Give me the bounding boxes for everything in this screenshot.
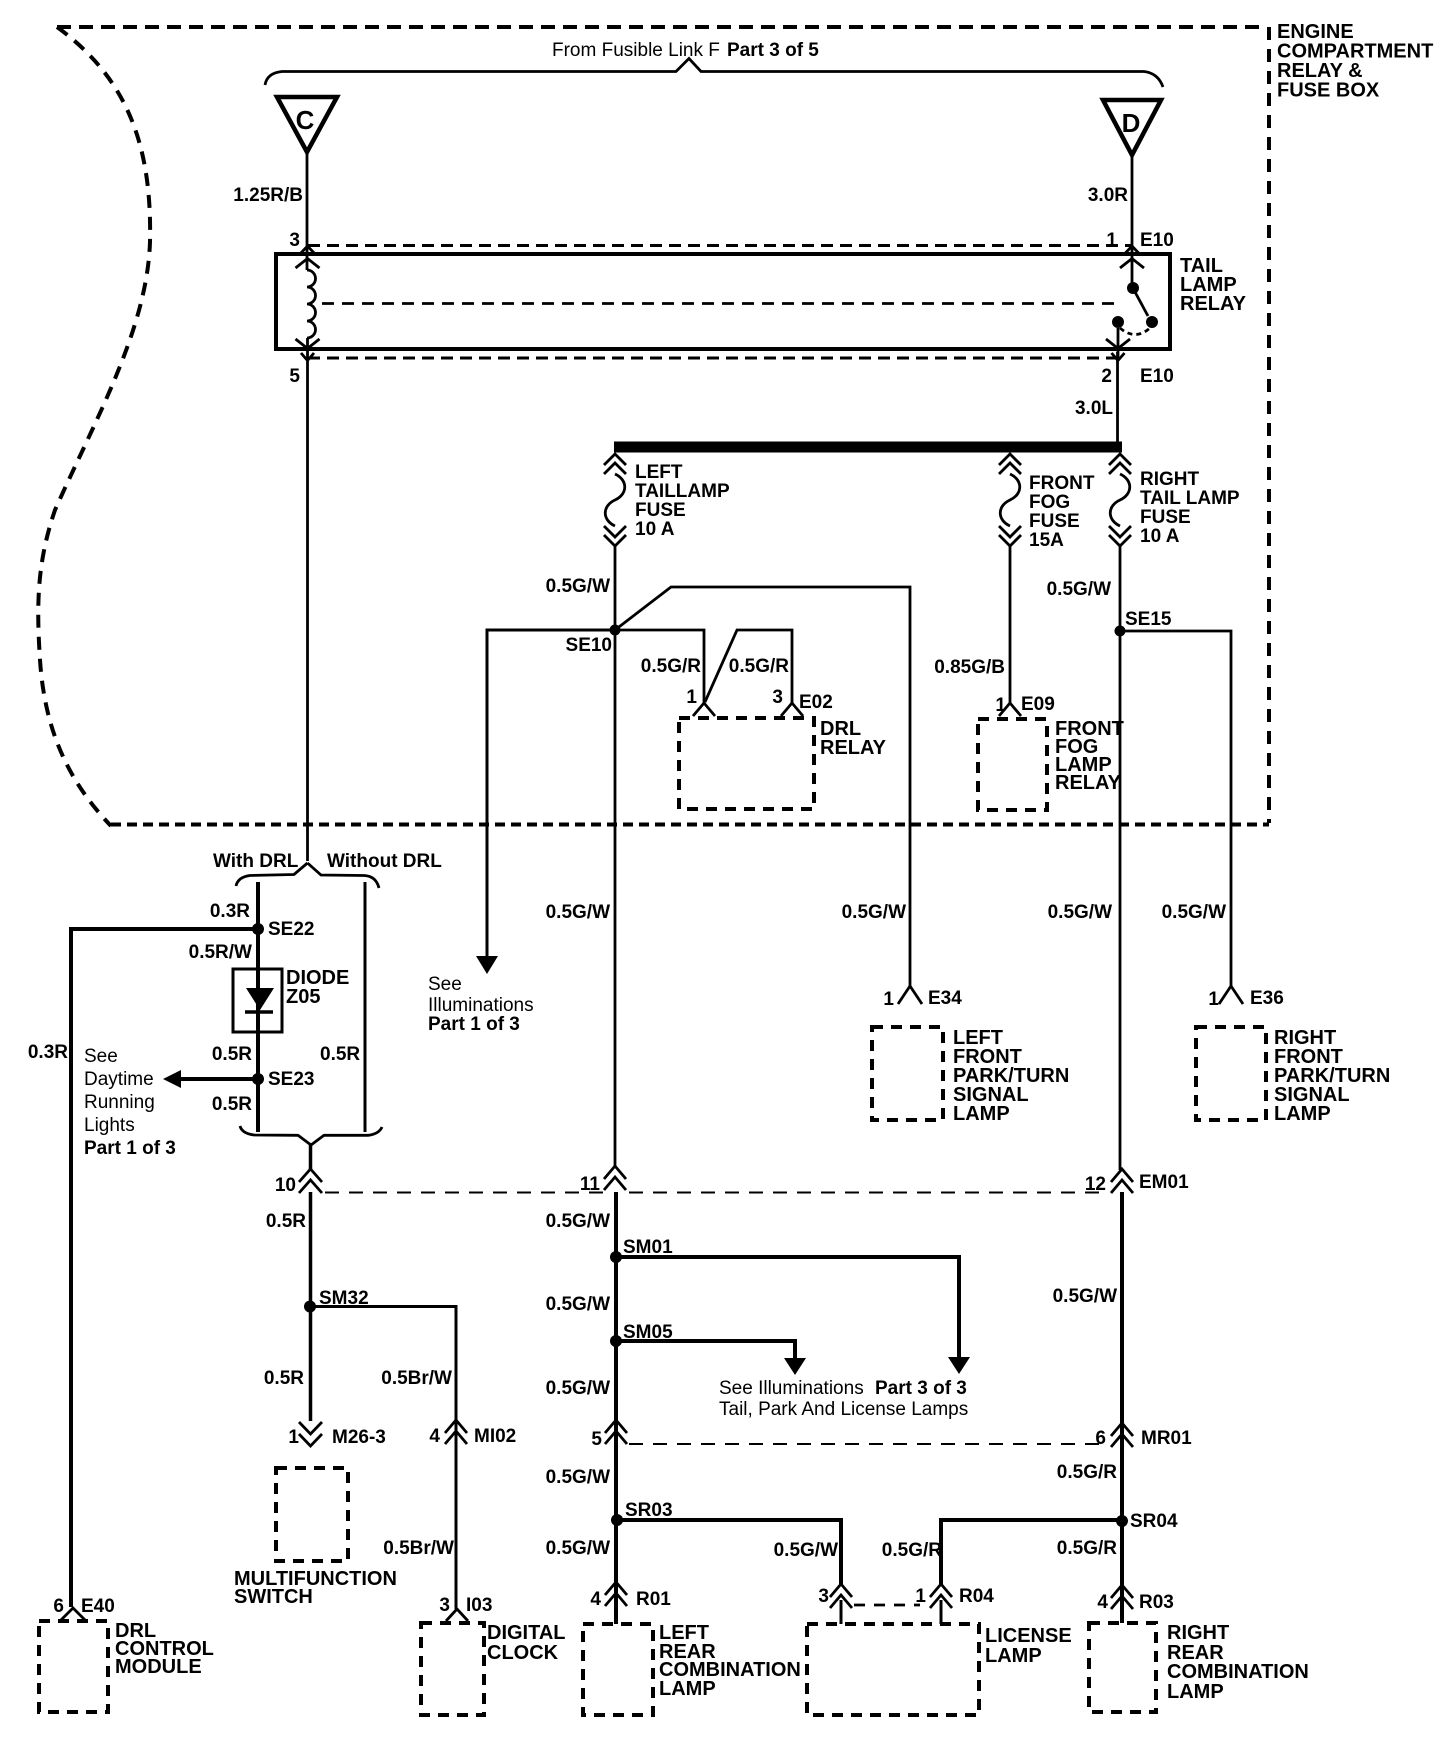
E09 pin chevron bbox=[999, 703, 1021, 716]
node SM01 bbox=[610, 1251, 622, 1263]
svg-text:Part 1 of 3: Part 1 of 3 bbox=[428, 1014, 520, 1035]
svg-text:3: 3 bbox=[439, 1595, 450, 1616]
MI02 pin chevrons bbox=[445, 1420, 467, 1444]
R03 pin chevrons bbox=[1111, 1585, 1133, 1609]
svg-text:0.5G/W: 0.5G/W bbox=[1162, 902, 1226, 923]
svg-text:LAMP: LAMP bbox=[985, 1645, 1042, 1667]
wire pin 10 to SM32 bbox=[309, 1192, 313, 1307]
svg-text:4: 4 bbox=[429, 1426, 440, 1447]
svg-text:RELAY: RELAY bbox=[1055, 772, 1122, 794]
svg-text:LAMP: LAMP bbox=[1274, 1103, 1331, 1125]
wire merge to pin 10 bbox=[309, 1144, 313, 1170]
svg-text:M26-3: M26-3 bbox=[332, 1427, 386, 1448]
svg-text:0.5G/W: 0.5G/W bbox=[546, 1538, 610, 1559]
svg-text:2: 2 bbox=[1101, 366, 1112, 387]
svg-text:3: 3 bbox=[289, 230, 300, 251]
wire crossover to DRL relay pin 3 bbox=[705, 630, 792, 703]
svg-text:TAIL LAMP: TAIL LAMP bbox=[1140, 488, 1240, 509]
svg-text:0.5G/R: 0.5G/R bbox=[882, 1540, 942, 1561]
label FRONT FOG LAMP RELAY bbox=[1055, 718, 1124, 794]
svg-text:0.5G/R: 0.5G/R bbox=[1057, 1462, 1117, 1483]
svg-text:0.5G/W: 0.5G/W bbox=[842, 902, 906, 923]
svg-text:1: 1 bbox=[1106, 230, 1117, 251]
wire R03 stub bbox=[1120, 1601, 1124, 1623]
dashed line below tail lamp relay bbox=[308, 357, 1117, 360]
dashed line between license pins bbox=[854, 1604, 920, 1607]
pin 6 chevrons MR01 bbox=[1111, 1423, 1133, 1447]
svg-text:CLOCK: CLOCK bbox=[487, 1642, 559, 1664]
DRL merge brace left bbox=[240, 1126, 311, 1145]
label FRONT FOG FUSE 15A bbox=[1029, 473, 1095, 551]
with DRL branch wire bbox=[256, 882, 260, 1132]
wire SM32 branch to MI02 bbox=[311, 1307, 457, 1610]
svg-text:3.0R: 3.0R bbox=[1088, 185, 1128, 206]
svg-text:FUSE BOX: FUSE BOX bbox=[1277, 80, 1380, 102]
wire R04 pin 1 to SR04 bbox=[941, 1520, 1122, 1584]
svg-text:0.5R: 0.5R bbox=[320, 1044, 360, 1065]
DRL relay dashed box bbox=[679, 718, 814, 809]
svg-text:FUSE: FUSE bbox=[635, 500, 686, 521]
label LEFT REAR COMBINATION LAMP bbox=[659, 1622, 801, 1700]
R01 pin chevrons bbox=[605, 1582, 627, 1606]
svg-text:SR04: SR04 bbox=[1130, 1511, 1178, 1532]
svg-text:SWITCH: SWITCH bbox=[234, 1586, 313, 1608]
relay pin 3 entry chevrons bbox=[296, 246, 320, 268]
label DRL RELAY bbox=[820, 718, 887, 759]
wire SM05 branch arrow bbox=[616, 1341, 806, 1375]
svg-text:0.5Br/W: 0.5Br/W bbox=[383, 1538, 454, 1559]
svg-text:10 A: 10 A bbox=[1140, 526, 1180, 547]
svg-text:E10: E10 bbox=[1140, 230, 1174, 251]
svg-text:E09: E09 bbox=[1021, 694, 1055, 715]
svg-text:LICENSE: LICENSE bbox=[985, 1625, 1072, 1647]
svg-text:E36: E36 bbox=[1250, 988, 1284, 1009]
front fog lamp relay dashed box bbox=[978, 719, 1047, 810]
svg-text:DIGITAL: DIGITAL bbox=[487, 1622, 566, 1644]
fuse bus bar bbox=[614, 442, 1122, 453]
node SE22 bbox=[252, 923, 264, 935]
pin 12 chevrons bbox=[1111, 1169, 1133, 1193]
svg-text:11: 11 bbox=[580, 1174, 601, 1195]
svg-text:FUSE: FUSE bbox=[1140, 507, 1191, 528]
label RIGHT REAR COMBINATION LAMP bbox=[1167, 1622, 1309, 1703]
svg-text:TAILLAMP: TAILLAMP bbox=[635, 481, 730, 502]
node SM32 bbox=[304, 1301, 316, 1313]
engine compartment relay & fuse box border bottom edge bbox=[111, 823, 1269, 827]
svg-text:0.5G/R: 0.5G/R bbox=[729, 656, 789, 677]
E40 pin chevron bbox=[61, 1608, 85, 1620]
svg-text:0.5G/W: 0.5G/W bbox=[774, 1540, 838, 1561]
label DIODE Z05 bbox=[286, 967, 349, 1008]
svg-text:See: See bbox=[428, 974, 462, 995]
pin 5 chevrons bbox=[605, 1420, 627, 1444]
svg-text:Running: Running bbox=[84, 1092, 155, 1113]
svg-text:1: 1 bbox=[686, 687, 697, 708]
relay switch contact dot 2 bbox=[1112, 316, 1124, 328]
relay switch contact dot 1 bbox=[1127, 282, 1139, 294]
svg-text:0.5G/R: 0.5G/R bbox=[641, 656, 701, 677]
wire SM32 to M26-3 bbox=[309, 1307, 313, 1422]
wire right tail lamp fuse down to pin 12 bbox=[1119, 546, 1122, 1170]
wire from triangle D to relay pin 1 bbox=[1131, 155, 1134, 262]
svg-text:SE22: SE22 bbox=[268, 919, 314, 940]
label DIGITAL CLOCK bbox=[487, 1622, 566, 1664]
diode Z05 symbol bbox=[245, 988, 274, 1012]
wire R01 stub bbox=[614, 1598, 618, 1624]
relay coil bbox=[307, 270, 316, 338]
relay pin 1 entry chevrons bbox=[1120, 246, 1144, 268]
svg-text:LAMP: LAMP bbox=[659, 1678, 716, 1700]
DRL control module dashed box bbox=[39, 1621, 108, 1712]
wire from triangle C to relay pin 3 bbox=[306, 152, 309, 270]
svg-text:0.5G/W: 0.5G/W bbox=[1048, 902, 1112, 923]
right tail lamp fuse symbol bbox=[1109, 454, 1131, 546]
svg-text:1: 1 bbox=[883, 989, 894, 1010]
right trunk wire pin 12 to R03 bbox=[1120, 1192, 1124, 1609]
wire front fog fuse to E09 pin 1 bbox=[1009, 546, 1012, 703]
svg-text:4: 4 bbox=[590, 1589, 601, 1610]
svg-text:0.85G/B: 0.85G/B bbox=[934, 657, 1005, 678]
svg-text:SR03: SR03 bbox=[625, 1500, 673, 1521]
svg-text:From Fusible Link F: From Fusible Link F bbox=[552, 40, 720, 61]
svg-text:12: 12 bbox=[1085, 1174, 1106, 1195]
I03 pin chevron bbox=[446, 1609, 468, 1621]
wire SE10 diagonal to E34 branch bbox=[615, 587, 910, 987]
svg-text:FRONT: FRONT bbox=[1029, 473, 1095, 494]
node SE23 bbox=[252, 1073, 264, 1085]
svg-text:0.5R: 0.5R bbox=[264, 1368, 304, 1389]
svg-text:Part 3 of 5: Part 3 of 5 bbox=[727, 40, 819, 61]
label ENGINE COMPARTMENT RELAY & FUSE BOX bbox=[1277, 21, 1433, 102]
svg-text:6: 6 bbox=[53, 1596, 64, 1617]
svg-text:SE15: SE15 bbox=[1125, 609, 1172, 630]
svg-text:SM01: SM01 bbox=[623, 1237, 673, 1258]
label LICENSE LAMP bbox=[985, 1625, 1072, 1667]
svg-text:Z05: Z05 bbox=[286, 986, 320, 1008]
wire R04 stub bbox=[940, 1600, 943, 1624]
wire SE22 to DRL control module bbox=[71, 929, 258, 1607]
svg-text:0.5G/W: 0.5G/W bbox=[546, 1467, 610, 1488]
label LEFT FRONT PARK/TURN SIGNAL LAMP bbox=[953, 1027, 1069, 1125]
relay switch contact dot 3 bbox=[1146, 316, 1158, 328]
svg-text:0.5G/W: 0.5G/W bbox=[1047, 579, 1111, 600]
dashed line above tail lamp relay bbox=[308, 244, 1131, 247]
svg-text:10: 10 bbox=[275, 1175, 296, 1196]
svg-text:SE10: SE10 bbox=[566, 635, 612, 656]
left front park/turn signal lamp dashed box bbox=[872, 1027, 943, 1120]
license lamp pin 1 chevrons bbox=[930, 1584, 952, 1608]
node SM05 bbox=[610, 1335, 622, 1347]
svg-text:RELAY: RELAY bbox=[820, 737, 887, 759]
svg-text:With DRL: With DRL bbox=[213, 851, 299, 872]
node SE15 bbox=[1115, 626, 1126, 637]
front fog fuse symbol bbox=[999, 454, 1021, 546]
right rear combination lamp dashed box bbox=[1089, 1623, 1156, 1712]
svg-text:FOG: FOG bbox=[1029, 492, 1070, 513]
svg-text:0.3R: 0.3R bbox=[28, 1042, 68, 1063]
wire from relay pin 5 down to DRL split bbox=[306, 338, 309, 861]
label LEFT TAILLAMP FUSE 10 A bbox=[635, 462, 730, 540]
left rear combination lamp dashed box bbox=[583, 1624, 653, 1715]
svg-text:RIGHT: RIGHT bbox=[1140, 469, 1200, 490]
engine compartment relay & fuse box border top edge bbox=[57, 25, 1264, 29]
svg-text:LEFT: LEFT bbox=[635, 462, 683, 483]
svg-text:0.3R: 0.3R bbox=[210, 901, 250, 922]
svg-text:COMBINATION: COMBINATION bbox=[1167, 1661, 1309, 1683]
relay switch fixed contact wire bbox=[1131, 258, 1134, 284]
wire from left fuse down to pin 11 bbox=[614, 546, 617, 1167]
engine compartment relay & fuse box border right edge bbox=[1267, 27, 1271, 823]
svg-text:0.5G/W: 0.5G/W bbox=[1053, 1286, 1117, 1307]
svg-text:4: 4 bbox=[1097, 1592, 1108, 1613]
license lamp dashed box bbox=[807, 1624, 979, 1715]
right front park/turn signal lamp dashed box bbox=[1196, 1027, 1266, 1120]
svg-text:5: 5 bbox=[591, 1429, 602, 1450]
svg-text:0.5R: 0.5R bbox=[212, 1094, 252, 1115]
svg-text:0.5R: 0.5R bbox=[266, 1211, 306, 1232]
DRL relay pin 1 chevron bbox=[693, 703, 715, 716]
svg-text:See Illuminations: See Illuminations bbox=[719, 1378, 864, 1399]
svg-text:E02: E02 bbox=[799, 692, 833, 713]
label RIGHT FRONT PARK/TURN SIGNAL LAMP bbox=[1274, 1027, 1390, 1125]
left taillamp fuse symbol bbox=[604, 454, 626, 546]
wire license pin 3 stub bbox=[840, 1600, 843, 1624]
svg-text:I03: I03 bbox=[466, 1595, 492, 1616]
wire SR03 branch to license lamp pin 3 bbox=[617, 1520, 841, 1585]
svg-text:R04: R04 bbox=[959, 1586, 994, 1607]
relay switch dashed arc bbox=[1120, 328, 1150, 335]
wire SM01 branch arrow bbox=[616, 1257, 970, 1374]
node SE10 bbox=[610, 625, 621, 636]
svg-text:E10: E10 bbox=[1140, 366, 1174, 387]
node SR04 bbox=[1116, 1515, 1128, 1527]
svg-text:Tail, Park And License Lamps: Tail, Park And License Lamps bbox=[719, 1399, 968, 1420]
svg-text:0.5G/W: 0.5G/W bbox=[546, 1378, 610, 1399]
svg-text:R03: R03 bbox=[1139, 1592, 1174, 1613]
arrow SE23 to daytime running lights bbox=[163, 1070, 258, 1088]
svg-text:MODULE: MODULE bbox=[115, 1656, 202, 1678]
wire SE15 to E36 branch bbox=[1120, 631, 1231, 987]
svg-text:3: 3 bbox=[772, 687, 783, 708]
pin 10 chevrons bbox=[299, 1169, 322, 1193]
svg-text:3: 3 bbox=[818, 1586, 829, 1607]
svg-text:D: D bbox=[1122, 108, 1141, 138]
svg-text:Without DRL: Without DRL bbox=[327, 851, 442, 872]
relay switch arm bbox=[1135, 292, 1148, 316]
svg-text:1: 1 bbox=[1208, 989, 1219, 1010]
label See Illuminations Part 3 of 3 bbox=[719, 1378, 968, 1420]
dashed pin row line left segment bbox=[325, 1192, 603, 1194]
label From Fusible Link F Part 3 of 5 bbox=[552, 40, 819, 61]
svg-text:C: C bbox=[296, 105, 315, 135]
without DRL branch wire bbox=[364, 882, 367, 1132]
DRL relay pin 3 chevron bbox=[781, 703, 803, 716]
tail lamp relay box bbox=[276, 254, 1170, 349]
svg-text:0.5R/W: 0.5R/W bbox=[189, 942, 252, 963]
wire SE10 to left bbox=[487, 630, 615, 957]
svg-text:0.5R: 0.5R bbox=[212, 1044, 252, 1065]
DRL merge brace right bbox=[311, 1127, 382, 1145]
svg-text:LAMP: LAMP bbox=[1167, 1681, 1224, 1703]
relay switch to pin 2 wire bbox=[1117, 328, 1120, 360]
diode Z05 box bbox=[233, 969, 282, 1032]
multifunction switch dashed box bbox=[276, 1468, 348, 1561]
svg-text:Part 3 of 3: Part 3 of 3 bbox=[875, 1378, 967, 1399]
dashed pin row line 5 to 6 bbox=[629, 1443, 1108, 1445]
M26-3 pin chevrons pointing down bbox=[299, 1422, 322, 1446]
svg-text:0.5Br/W: 0.5Br/W bbox=[381, 1368, 452, 1389]
svg-text:10 A: 10 A bbox=[635, 519, 675, 540]
dashed pin row line right segment bbox=[629, 1192, 1108, 1194]
label TAIL LAMP RELAY bbox=[1180, 255, 1247, 315]
svg-text:MI02: MI02 bbox=[474, 1426, 516, 1447]
DRL split brace right bbox=[308, 863, 380, 888]
license lamp pin 3 chevrons bbox=[830, 1584, 852, 1608]
brace under From Fusible Link F bbox=[265, 59, 1163, 88]
svg-text:E40: E40 bbox=[81, 1596, 115, 1617]
svg-text:0.5G/W: 0.5G/W bbox=[546, 576, 610, 597]
svg-text:0.5G/R: 0.5G/R bbox=[1057, 1538, 1117, 1559]
svg-text:RELAY: RELAY bbox=[1180, 293, 1247, 315]
engine compartment relay & fuse box border left curved edge bbox=[38, 27, 150, 826]
relay pin 5 exit chevrons bbox=[296, 339, 320, 361]
label MULTIFUNCTION SWITCH bbox=[234, 1568, 397, 1608]
dashed line inside tail lamp relay bbox=[322, 302, 1122, 305]
svg-text:6: 6 bbox=[1095, 1428, 1106, 1449]
svg-text:Daytime: Daytime bbox=[84, 1069, 154, 1090]
wire SE10 to DRL relay pin 1 bbox=[615, 630, 704, 703]
center trunk wire pin 11 to R01 bbox=[614, 1192, 618, 1608]
svg-text:Lights: Lights bbox=[84, 1115, 135, 1136]
DRL split brace left bbox=[236, 863, 308, 886]
svg-text:0.5G/W: 0.5G/W bbox=[546, 902, 610, 923]
svg-text:1.25R/B: 1.25R/B bbox=[233, 185, 303, 206]
label RIGHT TAIL LAMP FUSE 10 A bbox=[1140, 469, 1240, 547]
svg-text:0.5G/W: 0.5G/W bbox=[546, 1211, 610, 1232]
svg-text:15A: 15A bbox=[1029, 530, 1064, 551]
svg-text:SE23: SE23 bbox=[268, 1069, 314, 1090]
svg-text:3.0L: 3.0L bbox=[1075, 398, 1113, 419]
E36 pin chevron bbox=[1219, 986, 1243, 1004]
svg-text:E34: E34 bbox=[928, 988, 962, 1009]
svg-text:Part 1 of 3: Part 1 of 3 bbox=[84, 1138, 176, 1159]
node SR03 bbox=[611, 1514, 623, 1526]
connector triangle C bbox=[277, 97, 337, 152]
wire from relay pin 2 to fuse bus bbox=[1116, 352, 1119, 443]
svg-text:5: 5 bbox=[289, 366, 300, 387]
svg-text:See: See bbox=[84, 1046, 118, 1067]
svg-text:MR01: MR01 bbox=[1141, 1428, 1192, 1449]
label DRL CONTROL MODULE bbox=[115, 1620, 214, 1678]
svg-text:R01: R01 bbox=[636, 1589, 671, 1610]
label See Daytime Running Lights Part 1 of 3 bbox=[84, 1046, 176, 1159]
relay pin 2 exit chevrons bbox=[1106, 339, 1130, 361]
pin 11 chevrons bbox=[604, 1166, 626, 1190]
digital clock dashed box bbox=[421, 1623, 484, 1715]
svg-text:LAMP: LAMP bbox=[953, 1103, 1010, 1125]
svg-text:RIGHT: RIGHT bbox=[1167, 1622, 1229, 1644]
svg-text:1: 1 bbox=[288, 1427, 299, 1448]
svg-text:0.5G/W: 0.5G/W bbox=[546, 1294, 610, 1315]
svg-text:FUSE: FUSE bbox=[1029, 511, 1080, 532]
connector triangle D bbox=[1103, 100, 1161, 155]
label See Illuminations Part 1 of 3 bbox=[428, 974, 534, 1035]
svg-text:Illuminations: Illuminations bbox=[428, 995, 534, 1016]
arrowhead see illuminations part 1 bbox=[476, 956, 498, 974]
svg-text:1: 1 bbox=[915, 1586, 926, 1607]
E34 pin chevron bbox=[898, 986, 922, 1004]
svg-text:EM01: EM01 bbox=[1139, 1172, 1189, 1193]
